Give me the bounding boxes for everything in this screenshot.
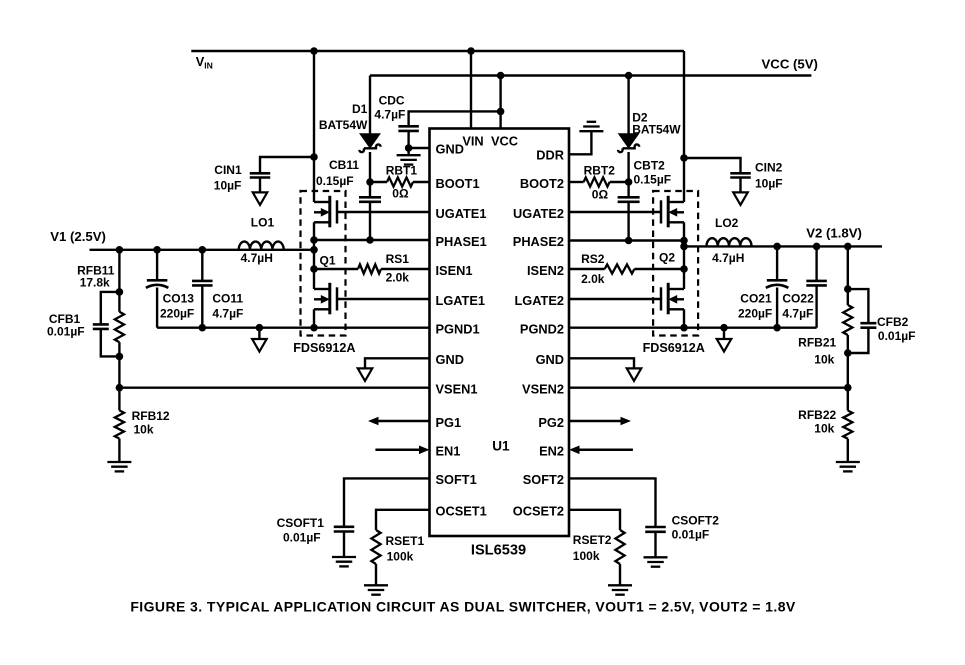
wire: Q2 lower source to PGND2 rail: [683, 309, 685, 327]
transistor Q1 upper MOSFET: [328, 196, 331, 228]
capacitor CO22 4.7uF: [815, 246, 817, 281]
resistor RSET2 100k: [615, 530, 624, 564]
ground (DDR, inverted): [579, 130, 603, 132]
wire: SOFT2 to CSOFT2: [569, 478, 656, 527]
node: CFB2 bottom tap: [844, 349, 852, 357]
svg-text:D1: D1: [352, 102, 368, 116]
capacitor CSOFT1 0.01uF: [334, 525, 355, 528]
wire: LGATE2 to Q2 lower gate: [569, 298, 661, 300]
svg-text:CO11: CO11: [212, 291, 243, 305]
wire: CDC top branch: [409, 111, 501, 126]
wire: PGND1 rail: [157, 327, 429, 329]
wire: IC VIN pin drop: [470, 51, 472, 129]
node: CBT2 to PHASE2 junction: [625, 237, 633, 245]
node: BOOT1 junction (D1/CB11/RBT1): [366, 178, 374, 186]
svg-text:UGATE1: UGATE1: [436, 206, 487, 221]
svg-text:FDS6912A: FDS6912A: [293, 341, 355, 355]
ground (PGND2 rail): [723, 328, 725, 339]
svg-text:0.15µF: 0.15µF: [316, 174, 354, 188]
wire: VIN rail down to Q2 drain: [683, 51, 685, 202]
svg-text:RFB22: RFB22: [798, 408, 836, 422]
svg-text:LO2: LO2: [715, 216, 739, 230]
resistor RS1 2.0k: [314, 268, 358, 270]
ground (CSOFT1): [332, 556, 356, 558]
node: RFB21 tap on V2: [844, 243, 852, 251]
arrow EN2 input: [580, 449, 633, 452]
svg-text:V2 (1.8V): V2 (1.8V): [806, 225, 862, 240]
node: GND pin / CDC junction: [405, 144, 413, 152]
svg-text:220µF: 220µF: [160, 306, 194, 320]
svg-text:RS2: RS2: [581, 252, 605, 266]
svg-text:17.8k: 17.8k: [80, 276, 110, 290]
wire: PHASE1 pin wire: [314, 239, 430, 241]
wire: LGATE1 to Q1 lower gate: [337, 298, 430, 300]
svg-text:RBT1: RBT1: [386, 164, 418, 178]
svg-text:BAT54W: BAT54W: [632, 122, 681, 136]
svg-text:100k: 100k: [387, 550, 414, 564]
inductor LO1 4.7uH: [239, 242, 284, 250]
node: CO13 tap on V1: [153, 246, 161, 254]
svg-text:Q1: Q1: [320, 253, 336, 267]
wire: DDR pin to inverted ground: [569, 131, 591, 154]
wire: Q2 bus upper source to PHASE2 node: [683, 222, 685, 246]
svg-text:LO1: LO1: [251, 216, 275, 230]
wire: Q2 bus source segment to ISEN2: [683, 246, 685, 289]
capacitor CFB1 0.01uF branch: [101, 292, 120, 325]
capacitor CSOFT2 0.01uF: [645, 526, 666, 529]
wire: V2 output line: [684, 245, 882, 247]
svg-text:GND: GND: [436, 142, 464, 157]
svg-text:RFB21: RFB21: [798, 336, 836, 350]
resistor RFB22 10k: [847, 388, 849, 411]
svg-text:IN: IN: [204, 61, 213, 71]
wire: OCSET2 to RSET2: [569, 510, 620, 530]
dashed box Q1 FDS6912A: [301, 191, 346, 336]
svg-text:0.01µF: 0.01µF: [878, 329, 916, 343]
svg-text:4.7µF: 4.7µF: [212, 306, 243, 320]
wire: UGATE2 to Q2 upper gate: [569, 211, 661, 213]
node: V1/LO1 on Q1 bus: [310, 246, 318, 254]
svg-text:DDR: DDR: [536, 148, 564, 163]
svg-text:GND: GND: [436, 352, 464, 367]
op-amp U1 ISL6539 IC body: [430, 129, 570, 537]
svg-text:CSOFT2: CSOFT2: [672, 514, 720, 528]
svg-text:4.7µF: 4.7µF: [374, 107, 405, 121]
svg-text:VIN: VIN: [462, 133, 483, 148]
resistor RFB21 10k: [847, 289, 849, 305]
wire: IC GND pin (left) to ground: [365, 358, 430, 368]
capacitor CO13 220uF polarized: [156, 250, 158, 280]
wire: CIN1 branch: [260, 157, 314, 173]
node: PHASE1 on Q1 bus: [310, 236, 318, 244]
resistor RFB11 17.8k: [118, 292, 120, 312]
svg-text:SOFT2: SOFT2: [523, 472, 564, 487]
transistor Q2 lower MOSFET: [667, 283, 670, 315]
svg-text:PG1: PG1: [436, 415, 462, 430]
svg-text:CO21: CO21: [740, 291, 772, 305]
svg-text:CDC: CDC: [379, 94, 405, 108]
svg-text:BOOT2: BOOT2: [520, 176, 564, 191]
wire: Q1 lower source to PGND rail: [313, 309, 315, 327]
wire: stem to earth ground: [407, 148, 409, 155]
node: CO22 tap on V2: [813, 243, 821, 251]
node: CIN1 tap on Q1 drain line: [310, 153, 318, 161]
svg-text:0.01µF: 0.01µF: [672, 527, 710, 541]
resistor RFB12 10k: [118, 388, 120, 411]
wire: VIN top rail: [191, 50, 684, 52]
wire: Q1 bus source segment to ISEN: [313, 250, 315, 289]
resistor RSET1 100k: [371, 530, 380, 564]
svg-text:4.7µF: 4.7µF: [782, 306, 813, 320]
node: ISEN2/RS2 tap on Q2 bus: [680, 265, 688, 273]
svg-text:4.7µH: 4.7µH: [712, 251, 744, 265]
svg-text:LGATE1: LGATE1: [436, 293, 486, 308]
diode D2 BAT54W schottky: [627, 76, 629, 135]
node: CFB2 top tap: [844, 285, 852, 293]
wire: VCC top rail: [370, 74, 811, 76]
svg-text:CBT2: CBT2: [634, 159, 666, 173]
wire: Q1 bus upper source to PHASE node: [313, 222, 315, 250]
svg-text:CO22: CO22: [782, 291, 814, 305]
capacitor CBT2 0.15uF: [627, 182, 629, 197]
svg-text:PGND1: PGND1: [436, 322, 480, 337]
svg-text:2.0k: 2.0k: [581, 272, 605, 286]
svg-text:ISEN2: ISEN2: [527, 263, 564, 278]
svg-text:10k: 10k: [134, 422, 154, 436]
inductor LO2 4.7uH: [707, 238, 752, 246]
node: CB11 to PHASE1 junction: [366, 236, 374, 244]
node: VIN rail to IC VIN pin junction: [467, 47, 475, 55]
wire: CIN2 branch: [684, 158, 741, 173]
svg-text:VSEN2: VSEN2: [522, 382, 564, 397]
node: VIN rail to Q1 drain junction: [310, 47, 318, 55]
transistor Q2 upper MOSFET: [667, 196, 670, 228]
node: V2/LO2 on Q2 bus: [680, 243, 688, 251]
svg-text:OCSET2: OCSET2: [513, 504, 564, 519]
node: PHASE2 on Q2 bus: [680, 237, 688, 245]
ground (CDC / GND pin): [397, 154, 421, 156]
capacitor CFB2 0.01uF branch: [848, 289, 869, 323]
svg-text:LGATE2: LGATE2: [514, 293, 564, 308]
node: CO11 tap on V1: [199, 246, 207, 254]
wire: IC VCC pin drop: [499, 76, 501, 129]
wire: VSEN2 line to IC: [569, 387, 848, 389]
svg-text:ISEN1: ISEN1: [436, 263, 473, 278]
wire: VSEN1 line to IC: [119, 387, 429, 389]
arrow EN1 input: [375, 449, 419, 452]
svg-text:PHASE2: PHASE2: [513, 234, 564, 249]
capacitor CIN2 10uF: [730, 172, 751, 175]
svg-text:FIGURE 3. TYPICAL APPLICATION: FIGURE 3. TYPICAL APPLICATION CIRCUIT AS…: [130, 599, 796, 615]
svg-text:10µF: 10µF: [755, 177, 783, 191]
wire: UGATE1 to Q1 upper gate: [337, 211, 430, 213]
svg-text:Q2: Q2: [659, 250, 675, 264]
wire: CDC bottom to GND pin wire: [407, 131, 409, 148]
ground (CSOFT2): [644, 556, 668, 558]
svg-text:VSEN1: VSEN1: [436, 382, 478, 397]
node: Q1 source on PGND1 rail: [310, 324, 318, 332]
resistor RBT2 0ohm: [569, 181, 584, 183]
node: CO11 on PGND1 rail: [199, 324, 207, 332]
svg-text:CIN2: CIN2: [755, 161, 783, 175]
node: ground tap on PGND1 rail: [256, 324, 264, 332]
svg-text:10µF: 10µF: [214, 178, 242, 192]
wire: PGND2 rail: [569, 327, 817, 329]
node: CFB1 top tap: [116, 288, 124, 296]
svg-text:VCC (5V): VCC (5V): [762, 56, 818, 71]
wire: IC GND pin (right) to ground: [569, 358, 634, 368]
capacitor CIN1 10uF: [250, 172, 271, 175]
node: CDC tap on VCC drop: [497, 108, 505, 116]
capacitor CB11 0.15uF: [369, 182, 371, 197]
node: RFB11 tap on V1: [116, 246, 124, 254]
node: ISEN1/RS1 tap on Q1 bus: [310, 265, 318, 273]
wire: V1 output line: [90, 249, 315, 251]
svg-text:0.01µF: 0.01µF: [283, 530, 321, 544]
svg-text:V1 (2.5V): V1 (2.5V): [50, 229, 106, 244]
svg-text:CSOFT1: CSOFT1: [277, 516, 325, 530]
wire: RFB11 top from V1: [118, 250, 120, 292]
capacitor CO11 4.7uF: [201, 250, 203, 281]
svg-text:0.15µF: 0.15µF: [634, 172, 672, 186]
svg-text:RSET1: RSET1: [386, 534, 425, 548]
node: CFB1 bottom tap: [116, 353, 124, 361]
svg-text:2.0k: 2.0k: [386, 270, 410, 284]
node: CIN2 tap on Q2 drain line: [680, 154, 688, 162]
svg-text:RSET2: RSET2: [573, 533, 612, 547]
node: VSEN2 junction: [844, 384, 852, 392]
svg-text:PG2: PG2: [538, 415, 564, 430]
diode D1 BAT54W schottky: [369, 76, 371, 135]
wire: feedback node down to VSEN1: [118, 356, 120, 387]
svg-text:BAT54W: BAT54W: [319, 118, 368, 132]
wire: CIN1 to ground: [259, 178, 261, 193]
svg-text:0Ω: 0Ω: [592, 187, 609, 201]
resistor RS2 2.0k: [569, 268, 605, 270]
node: CO21 tap on V2: [773, 243, 781, 251]
svg-text:CB11: CB11: [329, 158, 359, 172]
svg-text:10k: 10k: [814, 421, 834, 435]
svg-text:10k: 10k: [814, 353, 834, 367]
resistor RBT1 0ohm: [370, 181, 387, 183]
svg-text:VCC: VCC: [491, 133, 518, 148]
node: BOOT2 junction (D2/CBT2/RBT2): [625, 178, 633, 186]
svg-text:RBT2: RBT2: [584, 164, 616, 178]
svg-text:CFB2: CFB2: [877, 315, 909, 329]
wire: VIN rail down to Q1 drain: [313, 51, 315, 202]
node: ground tap on PGND2 rail: [720, 324, 728, 332]
svg-text:SOFT1: SOFT1: [436, 472, 477, 487]
dashed box Q2 FDS6912A: [653, 191, 698, 336]
svg-text:PGND2: PGND2: [520, 322, 564, 337]
svg-text:0.01µF: 0.01µF: [47, 325, 85, 339]
svg-text:BOOT1: BOOT1: [436, 176, 480, 191]
wire: D1 cathode to BOOT1 node: [369, 152, 371, 182]
svg-text:100k: 100k: [573, 549, 600, 563]
svg-text:OCSET1: OCSET1: [436, 504, 487, 519]
ground (CIN2): [733, 192, 748, 205]
svg-text:FDS6912A: FDS6912A: [643, 341, 705, 355]
node: VCC rail to IC VCC pin junction: [497, 72, 505, 80]
wire: feedback node down to VSEN2: [847, 353, 849, 388]
svg-text:ISL6539: ISL6539: [471, 543, 526, 559]
node: CO21 on PGND2 rail: [773, 324, 781, 332]
ground (left GND pin): [358, 368, 373, 381]
ground (PGND1 rail): [258, 328, 260, 339]
node: Q2 source on PGND2 rail: [680, 324, 688, 332]
capacitor CDC 4.7uF: [398, 125, 419, 128]
ground (RFB22): [836, 461, 860, 463]
svg-text:PHASE1: PHASE1: [436, 234, 487, 249]
svg-text:UGATE2: UGATE2: [513, 206, 564, 221]
svg-text:CO13: CO13: [163, 291, 195, 305]
svg-text:CIN1: CIN1: [214, 163, 242, 177]
ground (CIN1): [253, 192, 268, 205]
wire: OCSET1 to RSET1: [376, 510, 430, 530]
wire: IC GND pin to ground: [409, 147, 430, 149]
ground (RSET1): [364, 584, 388, 586]
wire: SOFT1 to CSOFT1: [344, 478, 430, 526]
svg-text:EN1: EN1: [436, 444, 461, 459]
wire: CB11 to PHASE1: [369, 202, 371, 240]
svg-text:0Ω: 0Ω: [392, 186, 409, 200]
arrow PG2 output: [569, 420, 621, 423]
node: VSEN1 junction: [116, 384, 124, 392]
svg-text:RS1: RS1: [386, 252, 410, 266]
transistor Q1 lower MOSFET: [328, 283, 331, 315]
wire: RFB21 top from V2: [847, 246, 849, 289]
wire: PHASE2 pin wire: [569, 239, 684, 241]
svg-text:EN2: EN2: [539, 444, 564, 459]
arrow PG1 output: [379, 420, 430, 423]
svg-text:220µF: 220µF: [738, 306, 772, 320]
svg-text:GND: GND: [536, 352, 564, 367]
svg-text:4.7µH: 4.7µH: [241, 251, 273, 265]
svg-text:RFB12: RFB12: [132, 409, 170, 423]
ground (RSET2): [608, 584, 632, 586]
svg-text:U1: U1: [492, 439, 510, 454]
node: VCC rail to D2 junction: [625, 72, 633, 80]
capacitor CO21 220uF polarized: [776, 246, 778, 280]
ground (RFB12): [107, 461, 131, 463]
ground (right GND pin): [627, 368, 642, 381]
